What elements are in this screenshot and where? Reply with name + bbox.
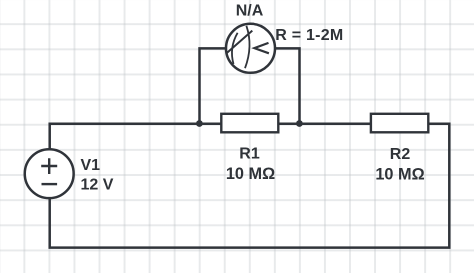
U1 scale arc left [232, 33, 238, 64]
U1 range marker < [254, 43, 269, 53]
wire net R1.b to R2.a (middle rail) [278, 123, 372, 126]
wire meter right lead (from meter to node B) [249, 48, 300, 123]
U1 needle [227, 31, 253, 54]
svg-text:10 MΩ: 10 MΩ [226, 165, 275, 183]
resistor R1 [221, 114, 278, 133]
ohmmeter U1 [226, 24, 275, 73]
V1 body circle [25, 149, 74, 198]
voltage source V1 [25, 149, 74, 198]
U1 scale arc right [245, 26, 250, 68]
svg-text:N/A: N/A [236, 2, 264, 19]
svg-text:R2: R2 [390, 146, 411, 163]
wire net R2.b to V1- (right side down, bottom rail, left side up) [50, 124, 450, 248]
junction node A (meter left lead / R1.a) [196, 120, 203, 127]
svg-text:10 MΩ: 10 MΩ [375, 165, 424, 183]
svg-text:R = 1-2M: R = 1-2M [275, 27, 343, 44]
U1 body circle [226, 24, 275, 73]
V1 plus sign [41, 158, 57, 174]
V1 minus sign [42, 183, 58, 185]
svg-text:V1: V1 [81, 157, 101, 174]
junction node B (meter right lead / R1.b / R2.a) [296, 120, 303, 127]
resistor R2 [371, 114, 428, 133]
wire net V1+ to R1.a (up from V1 then right along top rail) [50, 124, 223, 174]
svg-text:R1: R1 [239, 145, 260, 162]
wire meter left lead (from meter to node A) [200, 48, 249, 123]
svg-text:12 V: 12 V [81, 177, 114, 194]
